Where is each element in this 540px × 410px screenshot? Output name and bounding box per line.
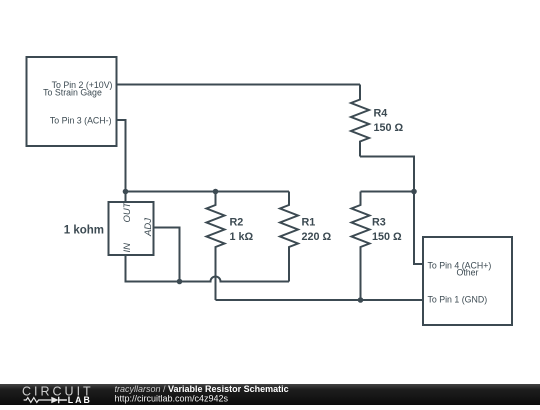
connector box J1 (left: strain gage) [27, 57, 117, 146]
wire: pot OUT lead [125, 192, 127, 203]
svg-text:R4: R4 [374, 108, 388, 120]
wire: R1 bottom to pot node with hop over R2 [180, 277, 290, 282]
junction: node A at R2 top [213, 189, 219, 195]
svg-text:IN: IN [122, 243, 133, 253]
wire: R4 bottom to node B [360, 157, 414, 192]
svg-text:150 Ω: 150 Ω [372, 231, 402, 243]
junction: node A at pot OUT [123, 189, 129, 195]
wire: J1 pin2 to R4 top node [117, 84, 361, 86]
junction: pot ADJ/IN tie [177, 279, 183, 285]
wire: pot ADJ lead [154, 228, 180, 282]
svg-text:1 kohm: 1 kohm [64, 225, 104, 237]
svg-text:Other: Other [456, 268, 478, 278]
svg-text:220 Ω: 220 Ω [302, 231, 332, 243]
junction: GND rail at R3 bottom [358, 297, 364, 303]
logo diode [51, 397, 58, 404]
wire: pot IN lead [126, 255, 180, 282]
resistor R4 [351, 85, 369, 157]
svg-text:R3: R3 [372, 217, 386, 229]
footer bar [0, 384, 540, 405]
resistor R2 [207, 192, 225, 301]
svg-text:To Pin 1 (GND): To Pin 1 (GND) [428, 295, 488, 305]
svg-text:To Strain Gage: To Strain Gage [43, 88, 102, 98]
wire: R3 top to node B [361, 191, 415, 193]
svg-text:150 Ω: 150 Ω [374, 122, 404, 134]
svg-text:http://circuitlab.com/c4z942s: http://circuitlab.com/c4z942s [115, 394, 229, 404]
svg-text:ADJ: ADJ [143, 218, 154, 237]
potentiometer POT1 body (1 kohm) [109, 202, 154, 255]
svg-text:To Pin 3 (ACH-): To Pin 3 (ACH-) [50, 116, 112, 126]
logo resistor squiggle [24, 398, 52, 403]
junction: node B (R4/R3/pin4) [411, 189, 417, 195]
svg-text:LAB: LAB [68, 395, 92, 405]
svg-text:1 kΩ: 1 kΩ [230, 231, 254, 243]
svg-text:OUT: OUT [122, 201, 133, 222]
svg-text:R2: R2 [230, 217, 244, 229]
resistor R1 [280, 192, 298, 282]
wire: J1 pin3 stub [117, 120, 126, 192]
connector box J2 (right: DAQ) [423, 237, 512, 325]
wire: GND rail from R2 bottom to J2 pin1 [216, 299, 424, 301]
resistor R3 [352, 192, 370, 301]
svg-text:R1: R1 [302, 217, 316, 229]
wire: node A horizontal rail (ACH-) [126, 191, 290, 193]
svg-text:tracyllarson / Variable Resist: tracyllarson / Variable Resistor Schemat… [115, 384, 289, 394]
wire: node B down to J2 pin4 [414, 192, 423, 265]
